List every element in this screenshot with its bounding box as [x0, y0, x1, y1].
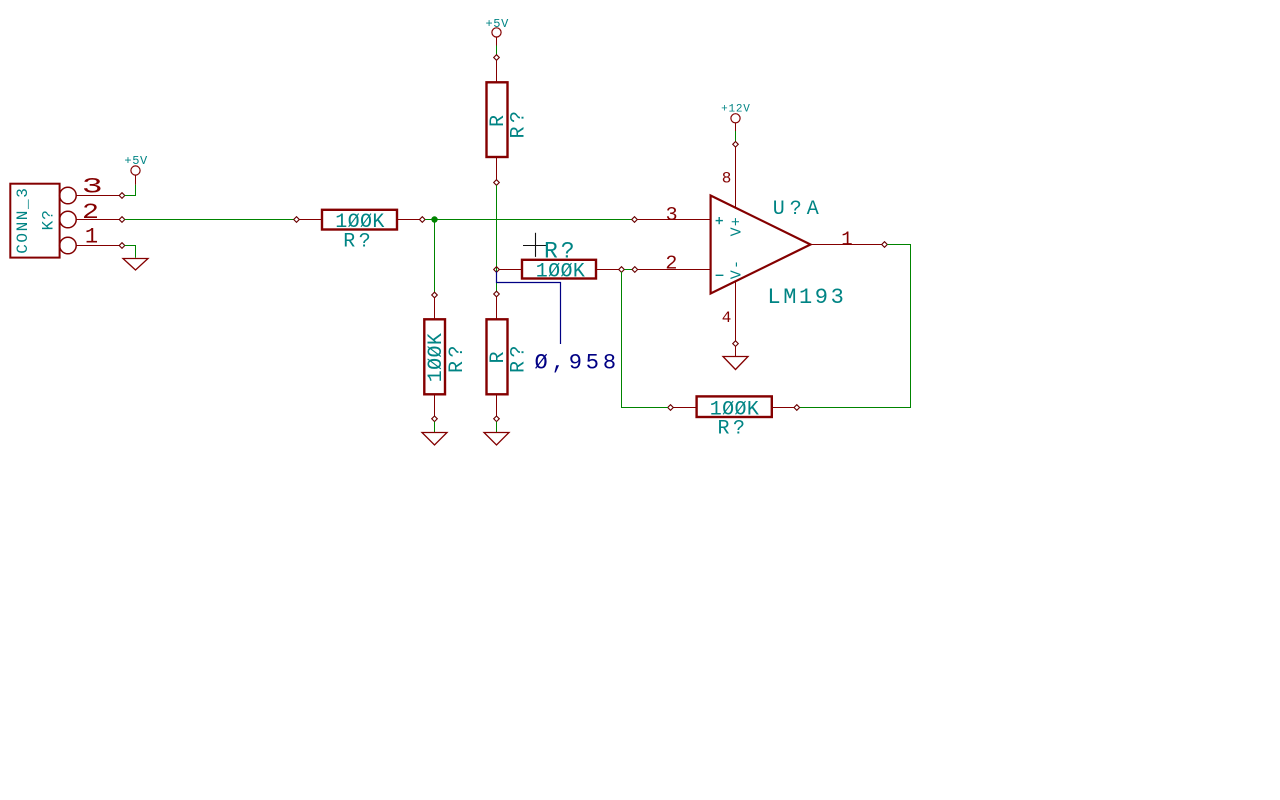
svg-text:R?: R? — [544, 238, 578, 264]
svg-text:2: 2 — [665, 252, 677, 274]
resistor R1 100K body — [322, 210, 397, 230]
node marker mid vert R top — [494, 291, 500, 297]
svg-text:2: 2 — [82, 200, 99, 225]
svg-text:R?: R? — [343, 230, 374, 253]
opamp pin 3 line — [637, 219, 710, 221]
wire +5V to R top — [496, 46, 498, 56]
wire junction to opamp pin3 — [425, 219, 632, 221]
svg-text:3: 3 — [82, 175, 103, 200]
resistor R4 body — [522, 260, 596, 279]
wire vertical mid column — [496, 185, 498, 291]
svg-text:1: 1 — [841, 229, 852, 251]
bus line (blue) — [497, 271, 561, 344]
resistor R2 100K (left vertical) pin top — [434, 298, 436, 320]
resistor R5 body — [697, 396, 772, 417]
node marker mid vert R bottom — [494, 416, 500, 422]
node marker opamp pin3 wire end — [632, 217, 638, 223]
node marker conn pin2 — [119, 217, 125, 223]
opamp pin 8 line — [735, 147, 737, 208]
svg-text:V-: V- — [729, 259, 746, 279]
svg-text:R?: R? — [446, 342, 469, 373]
svg-text:R?: R? — [717, 417, 748, 440]
svg-text:1: 1 — [85, 225, 98, 250]
svg-text:U?A: U?A — [773, 198, 824, 221]
op-amp plus mark — [716, 217, 723, 224]
resistor R? (top vertical) pin1 — [496, 60, 498, 82]
resistor R4 100K (to pin2) pin left — [499, 269, 522, 271]
opamp pin 1 line — [811, 244, 883, 246]
node marker left vert R bottom — [432, 416, 438, 422]
wire R2 to gnd — [434, 422, 436, 433]
connector pin 1 circle — [60, 237, 77, 254]
node marker left vert R top — [432, 292, 438, 298]
svg-text:R?: R? — [507, 107, 530, 138]
svg-text:3: 3 — [666, 204, 678, 226]
connector pin 2 circle — [60, 211, 77, 228]
resistor R3 body — [487, 319, 508, 394]
svg-text:Ø,958: Ø,958 — [535, 351, 621, 376]
wire junction down — [434, 220, 436, 293]
opamp pin 4 line — [735, 282, 737, 341]
resistor R4 pin right — [596, 269, 619, 271]
power +5V (conn) — [131, 166, 140, 185]
svg-text:LM193: LM193 — [767, 285, 846, 310]
op-amp U1 triangle — [711, 196, 811, 294]
wire conn pin1 to gnd — [125, 246, 136, 258]
connector pin 1 line — [76, 245, 119, 247]
resistor R5 100K (feedback) pin right — [772, 407, 794, 409]
ground (opamp) — [723, 357, 748, 370]
op-amp minus mark — [716, 274, 724, 276]
resistor R3 (middle vertical) pin top — [496, 297, 498, 320]
svg-text:R?: R? — [507, 342, 530, 373]
node marker pin4 — [733, 341, 739, 347]
wire +12V to pin8 — [735, 131, 737, 142]
node marker R bottom — [494, 180, 500, 186]
power +12V — [731, 114, 740, 131]
node marker R5 right pin — [794, 405, 800, 411]
wire feedback to pin2 — [622, 272, 669, 408]
resistor R5 pin left — [674, 407, 697, 409]
connector pin 3 line — [76, 195, 119, 197]
svg-text:V+: V+ — [729, 216, 746, 236]
node marker R1 right pin — [420, 217, 426, 223]
ground (R3) — [484, 433, 509, 446]
svg-text:4: 4 — [722, 309, 732, 327]
power +5V (top) — [492, 28, 501, 46]
wire conn pin3 to +5V — [125, 185, 136, 196]
svg-text:1ØØK: 1ØØK — [425, 333, 448, 383]
resistor R2 pin bottom — [434, 394, 436, 416]
node marker opamp pin2 wire end — [632, 267, 638, 273]
node marker output — [882, 242, 888, 248]
resistor R1 pin right — [397, 219, 420, 221]
resistor R2 body — [424, 319, 445, 394]
node marker R1 left pin — [294, 217, 300, 223]
connector pin 2 line — [76, 219, 119, 221]
ground (conn pin1) — [123, 259, 148, 271]
wire between markers pin2 — [624, 269, 632, 271]
node marker R4 left pin — [494, 267, 500, 273]
node marker R5 left pin — [668, 405, 674, 411]
resistor R? (top vertical) pin2 — [496, 157, 498, 180]
svg-text:8: 8 — [722, 169, 732, 187]
connector pin 3 circle — [60, 187, 77, 204]
resistor R? (top vertical) body — [487, 82, 508, 157]
node marker pin8 — [733, 142, 739, 148]
wire conn pin2 to R1 — [125, 219, 295, 221]
resistor R3 pin bottom — [496, 394, 498, 416]
svg-text:+5V: +5V — [485, 17, 509, 31]
node marker R4 right pin — [619, 267, 625, 273]
ground (R2) — [422, 433, 447, 446]
opamp pin 2 line — [638, 269, 711, 271]
junction — [431, 216, 437, 222]
resistor R1 100K pin left — [299, 219, 322, 221]
node marker top R pin1 — [494, 55, 500, 61]
node marker conn pin1 — [119, 243, 125, 249]
cursor crosshair — [523, 233, 548, 257]
wire R3 to gnd — [496, 422, 498, 433]
svg-text:K?: K? — [39, 209, 57, 230]
svg-text:CONN_3: CONN_3 — [14, 187, 32, 254]
gnd pin stub — [735, 346, 737, 356]
svg-text:+12V: +12V — [721, 103, 751, 115]
wire output feedback — [800, 245, 911, 408]
node marker conn pin3 — [119, 193, 125, 199]
connector K? CONN_3 body — [10, 184, 59, 258]
svg-text:+5V: +5V — [124, 154, 148, 168]
